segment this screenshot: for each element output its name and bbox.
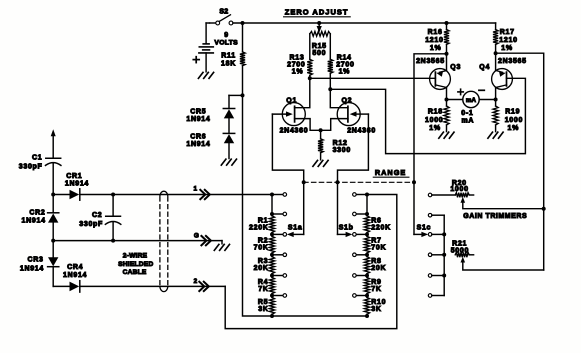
node line1 left — [51, 193, 55, 197]
S1a contact 5 — [270, 274, 287, 278]
node C2 top — [111, 193, 115, 197]
wire Q1 drain to R13 node — [295, 78, 310, 107]
battery plus sign — [193, 57, 199, 63]
label terminal G — [194, 233, 200, 240]
cable shield dashed lines — [160, 197, 168, 286]
wire R13 bottom to Q3 base — [310, 77, 436, 79]
wire input line 1 — [81, 194, 272, 196]
svg-text:2N4360: 2N4360 — [280, 128, 309, 135]
node R14 bottom — [328, 87, 332, 91]
S1c contact 5 — [428, 274, 444, 278]
svg-text:Q2: Q2 — [342, 98, 353, 105]
svg-text:R4: R4 — [258, 279, 268, 286]
svg-text:S1c: S1c — [417, 224, 432, 231]
svg-text:R17: R17 — [500, 29, 515, 36]
svg-text:1N914: 1N914 — [20, 266, 44, 273]
S1a contact 4 — [270, 253, 287, 257]
meter M1 0-1 mA — [447, 89, 496, 124]
wire top rail (+supply) — [233, 21, 496, 25]
label S1c — [417, 224, 432, 231]
S1b wiper arrow — [338, 232, 353, 237]
svg-text:VOLTS: VOLTS — [214, 40, 238, 47]
wire ladder right top — [365, 193, 369, 215]
wire Q1 gate to S1a wiper — [272, 114, 303, 234]
resistor R2 70K — [254, 234, 275, 254]
diode CR6 1N914 — [186, 118, 234, 148]
ground below R18 — [439, 132, 454, 138]
ground below R12 — [313, 160, 328, 166]
wire S1c wiper from gang line — [413, 182, 415, 234]
svg-text:Q4: Q4 — [479, 64, 490, 71]
svg-text:2N3565: 2N3565 — [416, 58, 445, 65]
svg-text:9: 9 — [224, 32, 229, 39]
svg-text:RANGE: RANGE — [375, 168, 406, 177]
resistor R14 2700 1% — [328, 34, 355, 90]
label ZERO ADJUST — [284, 7, 351, 16]
trimmer R20 1000 — [450, 180, 543, 209]
svg-text:CR5: CR5 — [190, 109, 206, 116]
resistor R5 3K — [258, 296, 275, 317]
S1b contact 6 — [353, 294, 369, 298]
connector chevrons line G — [201, 236, 211, 245]
resistor R3 20K — [254, 255, 275, 276]
resistor R19 1000 1% — [493, 100, 523, 133]
svg-text:3300: 3300 — [333, 147, 351, 154]
svg-text:R7: R7 — [371, 238, 381, 245]
JFET Q2 2N4360 — [337, 98, 376, 135]
svg-text:1000: 1000 — [450, 186, 468, 193]
svg-text:1%: 1% — [429, 125, 441, 132]
S1a wiper arrow — [287, 232, 304, 237]
diode CR1 1N914 — [53, 173, 89, 200]
label S1a — [288, 224, 303, 231]
svg-text:20K: 20K — [371, 265, 386, 272]
svg-text:R12: R12 — [333, 140, 348, 147]
transistor Q4 2N3565 — [479, 58, 526, 89]
resistor R11 18K — [221, 23, 245, 95]
diode CR2 1N914 — [22, 195, 59, 241]
diode CR3 1N914 — [20, 241, 59, 287]
S1b contact 5 — [353, 274, 369, 278]
S1c contact 3 — [428, 233, 444, 237]
label GAIN TRIMMERS — [463, 213, 527, 220]
svg-text:1210: 1210 — [499, 37, 517, 44]
label S1b — [339, 224, 354, 231]
wire Q2 drain to R14 node — [330, 89, 348, 107]
svg-text:1%: 1% — [508, 125, 520, 132]
JFET Q1 2N4360 — [272, 98, 308, 135]
svg-text:330pF: 330pF — [79, 221, 103, 228]
svg-text:3K: 3K — [371, 306, 381, 313]
svg-text:1%: 1% — [501, 45, 513, 52]
svg-text:1N914: 1N914 — [65, 180, 89, 187]
svg-text:S1a: S1a — [288, 224, 303, 231]
svg-text:20K: 20K — [254, 265, 269, 272]
S1a contact 2 — [270, 212, 287, 216]
resistor R10 3K — [364, 296, 386, 317]
wire input line G — [53, 240, 222, 242]
resistor R4 7K — [258, 276, 275, 296]
svg-text:220K: 220K — [371, 224, 391, 231]
node R20 wiper to Q4 collector line — [542, 207, 546, 211]
svg-text:2-WIRE: 2-WIRE — [123, 253, 148, 260]
svg-text:R5: R5 — [258, 299, 268, 306]
battery B1 9 VOLTS — [199, 23, 238, 72]
svg-text:C1: C1 — [32, 154, 42, 161]
svg-text:ZERO ADJUST: ZERO ADJUST — [285, 7, 349, 16]
connector chevrons line 2 — [199, 282, 209, 291]
svg-text:CR3: CR3 — [27, 256, 43, 263]
svg-text:Q3: Q3 — [450, 64, 461, 71]
resistor R7 70K — [364, 234, 386, 254]
svg-text:S2: S2 — [219, 9, 228, 16]
svg-text:R18: R18 — [428, 109, 443, 116]
svg-text:500: 500 — [312, 50, 326, 57]
svg-text:1N914: 1N914 — [186, 116, 210, 123]
svg-text:70K: 70K — [254, 245, 269, 252]
wire line 2 to R6 ladder top — [225, 195, 397, 329]
S1c contact 2 — [428, 213, 444, 217]
svg-text:CR2: CR2 — [29, 210, 45, 217]
wire ladder left top — [271, 195, 273, 215]
S1b contact 1 — [353, 193, 367, 197]
svg-text:mA: mA — [461, 117, 474, 124]
wire Q4 collector node to trimmer wipers — [496, 53, 544, 270]
svg-text:R1: R1 — [258, 217, 268, 224]
svg-text:R10: R10 — [371, 299, 386, 306]
resistor R8 20K — [364, 255, 386, 276]
svg-text:R8: R8 — [371, 258, 381, 265]
S1c contact 4 — [428, 253, 444, 257]
svg-text:R3: R3 — [258, 258, 268, 265]
svg-text:mA: mA — [466, 97, 477, 104]
label terminal 2 — [194, 278, 198, 285]
wire -9V rail to ladder bottoms — [243, 95, 370, 318]
svg-text:CR1: CR1 — [66, 173, 82, 180]
diode CR5 1N914 — [186, 95, 234, 123]
svg-text:1%: 1% — [339, 68, 351, 75]
node R11 bottom — [241, 93, 245, 97]
S1a contact 3 — [270, 232, 287, 236]
capacitor C1 330pF — [19, 154, 61, 194]
svg-text:C2: C2 — [92, 212, 102, 219]
S1c shorting bus — [442, 215, 446, 295]
svg-text:Q1: Q1 — [286, 98, 297, 105]
diode CR4 1N914 — [53, 264, 87, 292]
svg-text:330pF: 330pF — [19, 164, 43, 171]
wire Q1 source — [295, 119, 321, 131]
S1c contact 1 (to R20) — [428, 193, 455, 197]
switch S2 — [210, 9, 233, 25]
svg-text:R14: R14 — [337, 55, 352, 62]
S1c wiper arrow — [414, 232, 428, 237]
svg-text:1210: 1210 — [425, 37, 443, 44]
svg-text:R11: R11 — [221, 53, 236, 60]
svg-text:GAIN TRIMMERS: GAIN TRIMMERS — [463, 213, 527, 220]
input arrow (hot lead) — [51, 129, 56, 158]
ground below CR6 — [221, 143, 236, 165]
svg-text:1000: 1000 — [425, 117, 443, 124]
S1b contact 2 — [353, 212, 369, 216]
cable shield top loop — [160, 191, 168, 196]
wire R16 bottom to S1c wiper — [414, 54, 447, 183]
svg-text:2N4360: 2N4360 — [347, 128, 376, 135]
svg-text:CR6: CR6 — [190, 134, 206, 141]
wire Q2 gate to S1b wiper — [338, 114, 369, 234]
svg-text:7K: 7K — [258, 286, 268, 293]
svg-text:7K: 7K — [371, 286, 381, 293]
ground below battery — [198, 72, 213, 78]
node R13 bottom — [308, 76, 312, 80]
resistor R1 220K — [249, 214, 275, 234]
wire input line 2 — [81, 285, 225, 287]
ground at G input — [214, 241, 229, 251]
svg-text:R19: R19 — [505, 109, 520, 116]
svg-text:1%: 1% — [430, 45, 442, 52]
svg-text:70K: 70K — [371, 245, 386, 252]
resistor R9 7K — [364, 276, 381, 296]
wire R14 bottom to Q4 base — [330, 78, 525, 153]
svg-text:CR4: CR4 — [67, 264, 83, 271]
svg-text:1: 1 — [193, 186, 197, 193]
wire Q3 emitter — [445, 88, 449, 102]
resistor R12 3300 — [318, 130, 351, 160]
svg-text:220K: 220K — [249, 224, 269, 231]
svg-text:R6: R6 — [371, 217, 381, 224]
svg-text:2: 2 — [194, 278, 198, 285]
svg-text:S1b: S1b — [339, 224, 354, 231]
S1b contact 3 — [353, 232, 369, 236]
S1a contact 6 — [270, 294, 287, 298]
svg-text:2N3565: 2N3565 — [498, 58, 527, 65]
svg-text:SHIELDED: SHIELDED — [118, 261, 153, 268]
svg-text:1N914: 1N914 — [63, 272, 87, 279]
svg-text:R15: R15 — [312, 43, 327, 50]
resistor R17 1210 1% — [493, 23, 518, 70]
trimmer R21 5000 — [451, 240, 544, 270]
resistor R16 1210 1% — [425, 23, 449, 71]
svg-text:3K: 3K — [258, 306, 268, 313]
wire R11 to CR5 branch — [229, 94, 243, 96]
label RANGE — [373, 168, 409, 177]
label terminal 1 — [193, 186, 197, 193]
S1b contact 4 — [353, 253, 369, 257]
resistor R6 220K — [364, 214, 390, 234]
node R16 bottom — [445, 52, 449, 56]
svg-text:1N914: 1N914 — [186, 141, 210, 148]
node R17 bottom — [494, 51, 498, 55]
svg-text:R2: R2 — [258, 238, 268, 245]
wire Q4 emitter — [494, 88, 498, 102]
potentiometer R15 500 (zero adjust) — [310, 23, 331, 57]
dashed gang line (RANGE switch) — [302, 180, 416, 184]
node G left — [51, 239, 55, 243]
node common source — [319, 128, 323, 132]
S1c contact 6 — [428, 294, 444, 298]
resistor R18 1000 1% — [425, 100, 449, 133]
S1a contact 1 — [270, 193, 287, 197]
svg-text:G: G — [194, 233, 200, 240]
svg-text:18K: 18K — [221, 60, 236, 67]
transistor Q3 2N3565 — [416, 58, 461, 89]
svg-text:1%: 1% — [292, 68, 304, 75]
svg-text:R16: R16 — [428, 29, 443, 36]
svg-text:0-1: 0-1 — [461, 110, 473, 117]
label 2-WIRE SHIELDED CABLE — [118, 253, 153, 276]
svg-text:R13: R13 — [290, 55, 305, 62]
connector chevrons line 1 — [200, 190, 210, 199]
node C2 bottom — [111, 239, 115, 243]
svg-text:CABLE: CABLE — [123, 269, 147, 276]
ground below R19 — [488, 132, 503, 138]
svg-text:R9: R9 — [371, 279, 381, 286]
capacitor C2 330pF — [79, 195, 121, 241]
cable shield bottom loop — [160, 287, 168, 292]
svg-text:1N914: 1N914 — [22, 217, 46, 224]
wire Q2 source — [321, 119, 348, 131]
resistor R13 2700 1% — [287, 34, 312, 79]
svg-text:1000: 1000 — [505, 117, 523, 124]
svg-text:5000: 5000 — [451, 247, 469, 254]
